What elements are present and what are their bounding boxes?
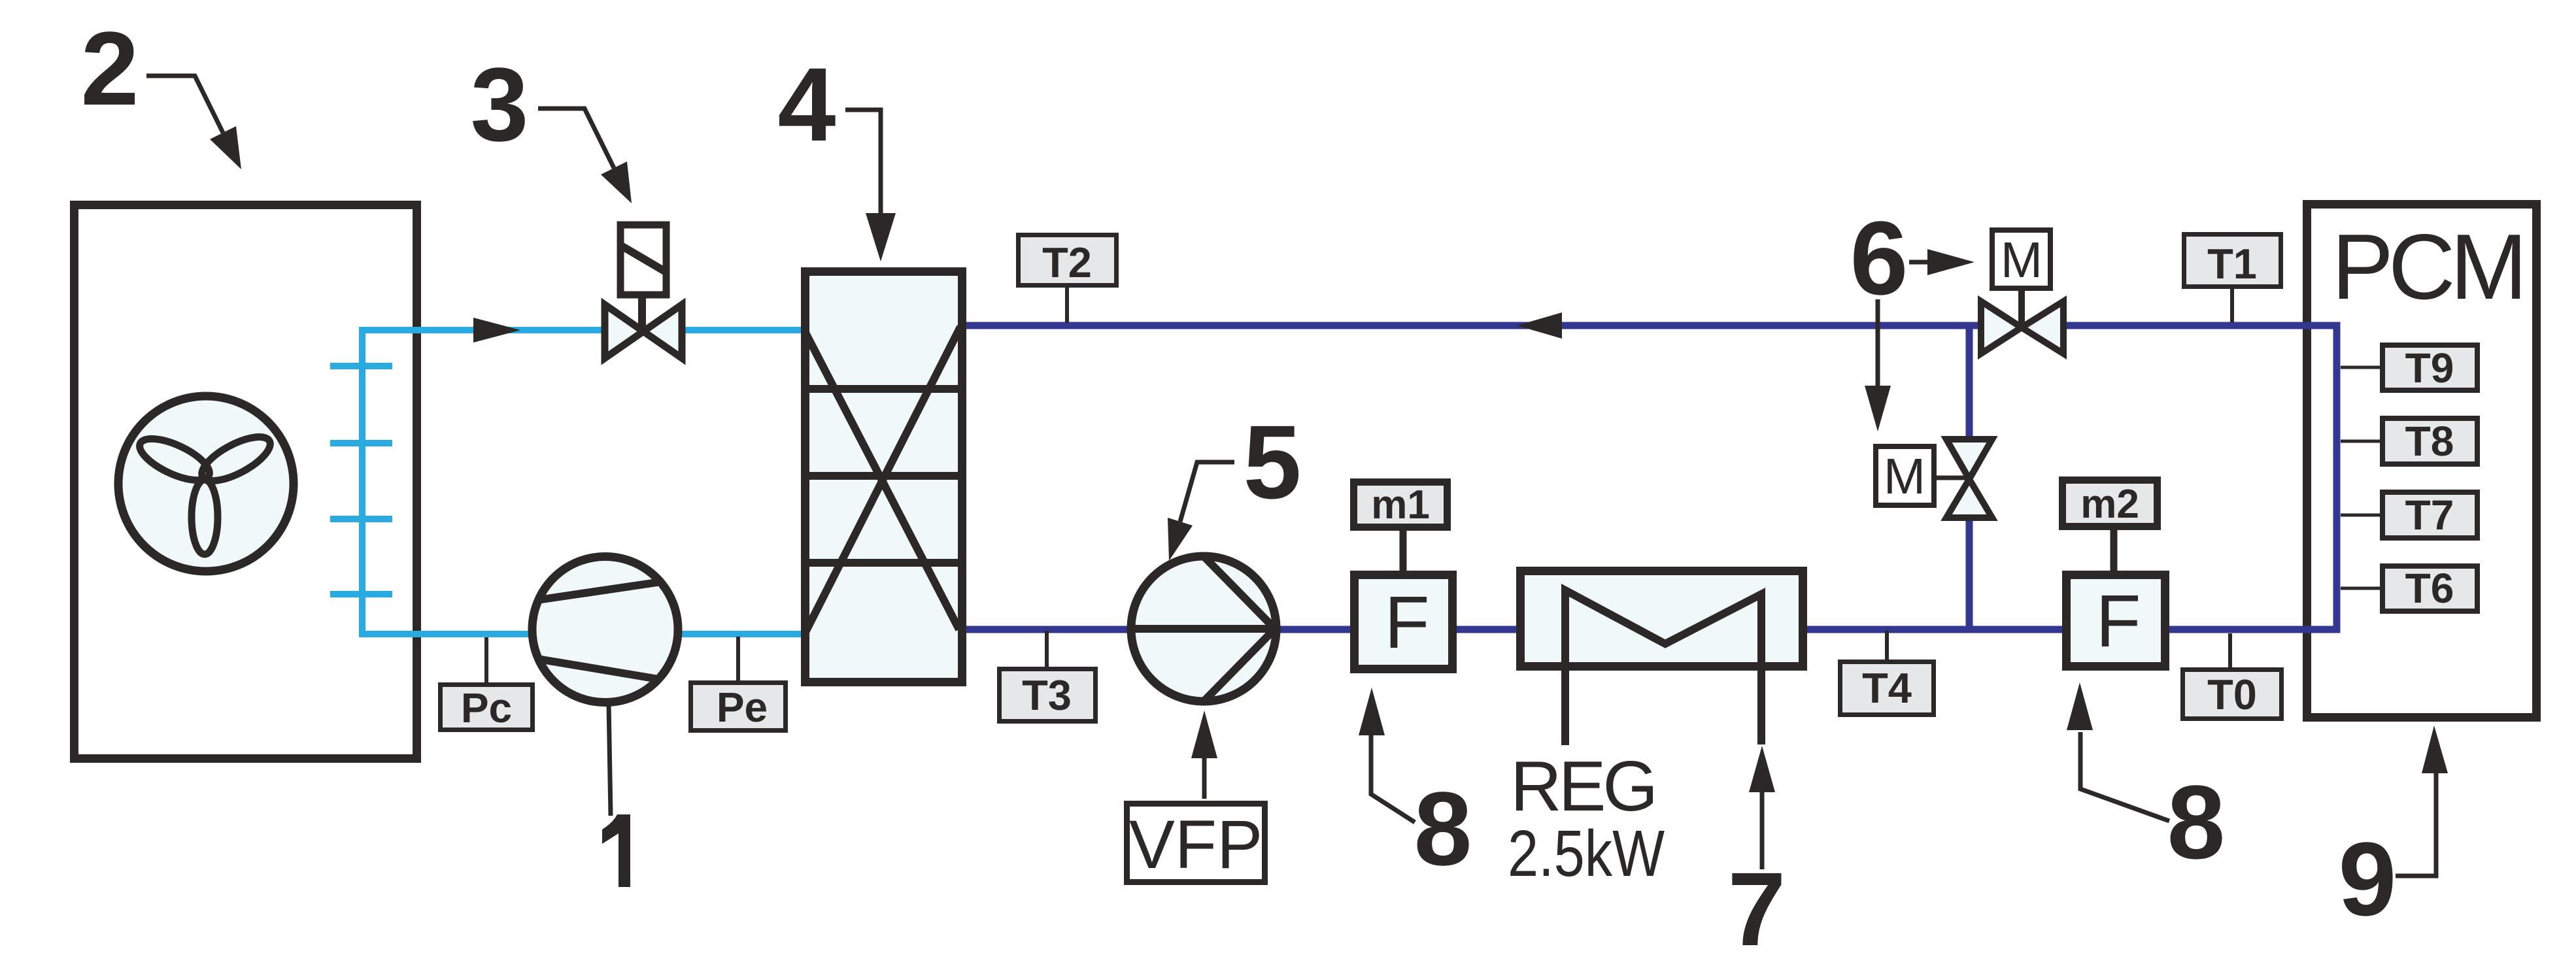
svg-text:6: 6: [1850, 199, 1908, 316]
bypass motor valve: body: [1946, 439, 1992, 479]
electric heater REG 7: [1521, 571, 1803, 667]
svg-text:2: 2: [81, 10, 139, 127]
svg-text:2.5kW: 2.5kW: [1508, 817, 1665, 890]
svg-text:M: M: [2001, 232, 2042, 288]
sensor Pc: [484, 637, 488, 684]
wire: bypass branch lower: [1966, 520, 1973, 629]
compressor 1: [532, 557, 678, 703]
flow meter F1: [1355, 575, 1453, 669]
svg-text:T8: T8: [2405, 418, 2454, 465]
svg-text:8: 8: [1414, 770, 1472, 887]
sensor T6: [2341, 587, 2381, 590]
svg-text:T7: T7: [2405, 492, 2454, 539]
motor valve 6 top: M box: [1992, 230, 2050, 288]
leader for 8 right: [2080, 732, 2169, 821]
leader for 2: [146, 76, 223, 133]
outdoor unit 2: [75, 205, 417, 759]
numeral 1: [602, 814, 630, 887]
expansion valve 3 body: [605, 305, 643, 358]
svg-text:F: F: [2095, 580, 2141, 662]
wire: tank internal pipe: [2294, 326, 2337, 629]
svg-text:7: 7: [1728, 850, 1786, 967]
PCM tank 9: [2307, 205, 2537, 718]
leader for 6 right arrow: [1909, 260, 1929, 265]
leader for 7: [1760, 788, 1765, 869]
sensor m1 stem: [1400, 531, 1407, 571]
fan: [118, 396, 294, 571]
sensor T8: [2341, 440, 2381, 443]
wire: coil tick 2: [330, 440, 392, 446]
sensor T3: [1045, 631, 1049, 668]
svg-text:REG: REG: [1510, 746, 1655, 826]
sensor T0: [2228, 633, 2232, 669]
svg-text:4: 4: [778, 46, 836, 163]
sensor T1: [2230, 289, 2234, 322]
sensor T9: [2341, 366, 2381, 369]
svg-text:m2: m2: [2080, 482, 2139, 527]
sensor m2: [2063, 480, 2158, 527]
sensor Pe: [736, 637, 740, 682]
svg-text:5: 5: [1244, 403, 1302, 520]
wire: refrigerant cyan loop: [362, 330, 805, 634]
flow meter F2: [2067, 575, 2165, 667]
svg-text:m1: m1: [1371, 482, 1430, 527]
motor valve 6 top: stem: [2018, 291, 2025, 327]
wire: coil tick 1: [330, 363, 392, 369]
svg-text:T3: T3: [1022, 671, 1072, 719]
svg-text:T1: T1: [2207, 240, 2257, 288]
bypass motor valve: M box: [1876, 446, 1934, 505]
svg-text:T4: T4: [1862, 664, 1912, 712]
plate heat exchanger 4: [805, 272, 962, 682]
sensor T4: [1885, 631, 1889, 661]
VFP drive box: [1127, 804, 1265, 882]
sensor T7: [2341, 514, 2381, 517]
pump 5: [1131, 556, 1276, 701]
svg-text:3: 3: [471, 46, 529, 163]
svg-text:F: F: [1384, 581, 1429, 663]
svg-text:T2: T2: [1042, 239, 1092, 286]
leader for 5: [1180, 462, 1234, 522]
wire: coil tick 3: [330, 516, 392, 522]
svg-text:T0: T0: [2207, 671, 2257, 718]
leader for 8 left: [1371, 733, 1415, 822]
wire: water navy loop: [962, 326, 2337, 629]
flow arrow on navy line: [1517, 312, 1562, 339]
svg-text:PCM: PCM: [2331, 215, 2522, 319]
sensor m1: [1354, 482, 1448, 527]
svg-text:M: M: [1884, 448, 1925, 505]
leader for 3: [538, 109, 614, 168]
leader for 9: [2396, 771, 2436, 876]
svg-text:VFP: VFP: [1129, 807, 1263, 883]
wire: coil tick 4: [330, 591, 392, 597]
VFP arrow: [1202, 758, 1207, 799]
svg-text:8: 8: [2167, 763, 2226, 880]
svg-text:Pe: Pe: [717, 684, 768, 731]
leader for 6 down arrow: [1876, 299, 1880, 392]
bypass motor valve: stem: [1937, 476, 1969, 480]
motor valve 6 top: body: [1981, 301, 2022, 354]
svg-text:T9: T9: [2405, 344, 2454, 392]
expansion valve 3 actuator: [620, 225, 666, 295]
wire: bypass branch upper: [1966, 326, 1973, 436]
leader for 1: [609, 703, 611, 816]
svg-text:T6: T6: [2405, 565, 2454, 612]
expansion valve 3 stem: [638, 295, 646, 331]
sensor T2: [1065, 288, 1069, 323]
sensor m2 stem: [2110, 530, 2118, 571]
flow arrow on cyan line: [473, 318, 520, 343]
leader for 4: [845, 110, 881, 216]
svg-text:Pc: Pc: [461, 684, 512, 731]
svg-text:9: 9: [2339, 820, 2397, 937]
